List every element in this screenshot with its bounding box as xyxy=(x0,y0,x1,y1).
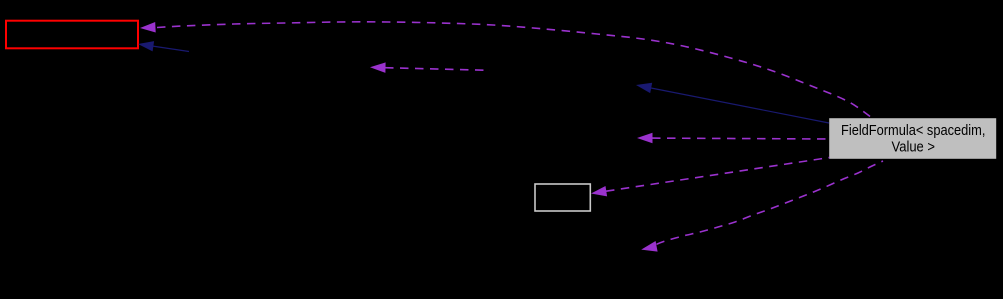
edge e: dashed purple horizontal arrow from FieldFormula to hidden node xyxy=(652,137,829,140)
node U: FieldFormula< spacedim, Value > (current class, grey filled) xyxy=(829,118,997,160)
edge c: dashed purple arrow (middle-left) xyxy=(385,68,490,71)
arrowhead d xyxy=(636,83,652,93)
arrowhead b xyxy=(138,41,154,51)
arrowhead f xyxy=(591,186,607,196)
arrowhead e xyxy=(637,133,653,144)
node: red box (truncated class, label hidden on black) xyxy=(6,21,138,49)
edge d: solid blue inheritance arrow from FieldFormula to hidden base xyxy=(651,88,829,123)
node: grey-bordered box (undocumented class, label hidden) xyxy=(535,184,590,211)
arrowhead a xyxy=(140,22,156,33)
arrowhead g xyxy=(641,241,657,252)
edge b: solid blue arrow into red box from hidden node xyxy=(152,46,189,52)
edge f: dashed purple arrow from FieldFormula to grey-bordered box xyxy=(606,158,830,192)
svg-text:Value >: Value > xyxy=(892,140,936,156)
arrowhead c xyxy=(370,62,386,73)
svg-text:FieldFormula< spacedim,: FieldFormula< spacedim, xyxy=(841,123,985,139)
edge g: dashed purple curve from FieldFormula bottom to hidden node xyxy=(657,161,884,244)
edge a: dashed purple curve from FieldFormula top to red box xyxy=(157,22,872,118)
